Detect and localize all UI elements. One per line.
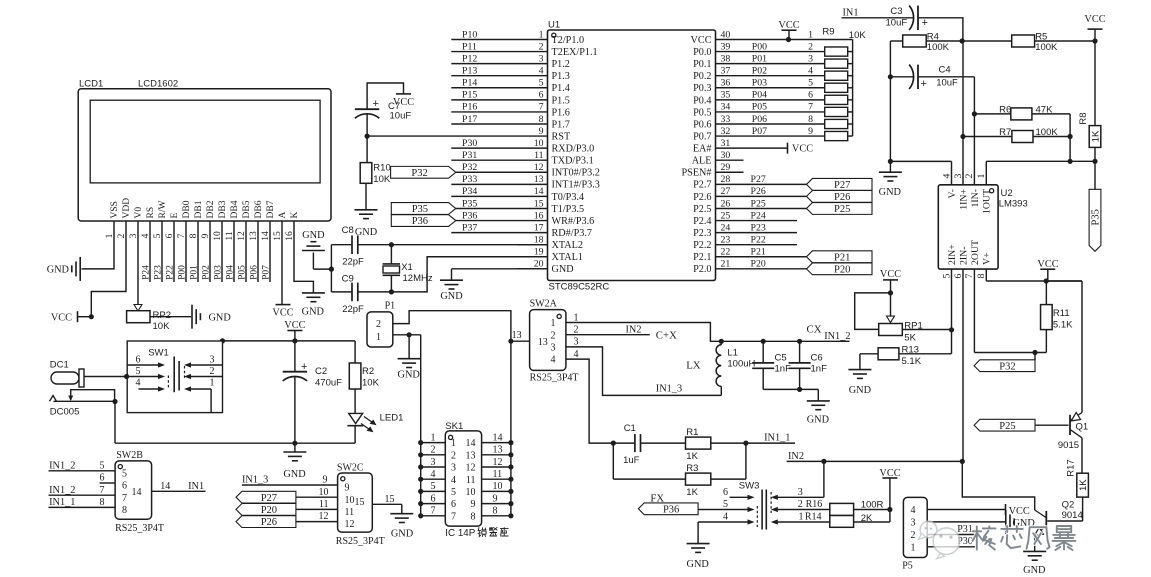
svg-text:4: 4 <box>431 469 436 480</box>
svg-text:IN1: IN1 <box>188 481 204 492</box>
svg-text:IN1_3: IN1_3 <box>656 384 682 395</box>
svg-text:L1: L1 <box>727 347 738 358</box>
capacitor C6 1nF <box>789 341 827 389</box>
switch SW3 <box>698 480 830 543</box>
transistor Q2 9014 NPN <box>962 461 1082 535</box>
svg-text:3: 3 <box>451 463 456 474</box>
svg-text:2: 2 <box>210 366 215 377</box>
svg-text:C+X: C+X <box>656 329 677 341</box>
wire U2 pin6 2IN- down to IN2 <box>962 269 964 461</box>
svg-text:3: 3 <box>798 487 803 498</box>
ground GND below C2 <box>283 443 306 480</box>
svg-text:IN1_2: IN1_2 <box>49 460 75 471</box>
power VCC above RP1 <box>880 269 901 295</box>
svg-text:15: 15 <box>385 494 395 505</box>
svg-text:9: 9 <box>471 499 476 510</box>
svg-text:16: 16 <box>534 210 544 221</box>
svg-text:1: 1 <box>539 29 544 40</box>
svg-text:DB2: DB2 <box>206 200 216 218</box>
svg-text:P35: P35 <box>462 198 477 209</box>
power VCC at P5 pin4 <box>1006 504 1030 517</box>
svg-text:IN2: IN2 <box>788 451 804 462</box>
svg-text:P06: P06 <box>249 265 259 280</box>
svg-text:XTAL1: XTAL1 <box>552 252 583 263</box>
svg-text:P10: P10 <box>462 29 477 40</box>
svg-text:SW1: SW1 <box>148 348 169 359</box>
port flag P20 to SW2C pin11 <box>236 499 338 516</box>
wires U1 P0.0-P0.7 to R9 with net labels P00-P07 <box>744 41 825 136</box>
svg-text:INT1#/P3.3: INT1#/P3.3 <box>552 180 600 191</box>
svg-text:2: 2 <box>964 173 975 178</box>
svg-text:P21: P21 <box>834 252 850 263</box>
wire LCD pin3 V0 to RP2 wiper <box>134 221 142 311</box>
wire P1 pin1 to ground and SK1 bus <box>393 332 421 358</box>
wire IN2 to SW3 pin3 <box>823 461 825 497</box>
resistor R7 100K <box>960 127 1072 142</box>
svg-text:28: 28 <box>721 174 731 185</box>
svg-text:100R: 100R <box>861 499 884 510</box>
svg-text:R16: R16 <box>806 499 823 510</box>
svg-text:10uF: 10uF <box>886 18 908 29</box>
svg-text:P5: P5 <box>902 561 913 572</box>
svg-text:P16: P16 <box>462 102 477 113</box>
svg-text:VCC: VCC <box>1009 506 1030 517</box>
svg-text:SW2C: SW2C <box>337 462 364 473</box>
svg-text:2: 2 <box>808 41 813 52</box>
svg-text:12: 12 <box>534 162 544 173</box>
svg-text:5: 5 <box>136 366 141 377</box>
port flag P27 at U1 pin28 <box>807 178 873 191</box>
svg-text:10: 10 <box>319 487 329 498</box>
svg-text:26: 26 <box>721 198 731 209</box>
label LX <box>686 360 701 372</box>
svg-text:14: 14 <box>160 481 170 492</box>
svg-text:P2.0: P2.0 <box>693 264 711 275</box>
svg-text:3: 3 <box>574 337 579 348</box>
svg-text:4: 4 <box>723 512 728 523</box>
svg-text:4: 4 <box>941 173 952 178</box>
capacitor C3 10uF <box>886 6 928 30</box>
svg-text:1: 1 <box>808 29 813 40</box>
svg-text:R1: R1 <box>686 427 698 438</box>
svg-text:7: 7 <box>100 485 105 496</box>
svg-text:P35: P35 <box>1090 209 1101 225</box>
svg-text:P2.2: P2.2 <box>693 240 711 251</box>
wire SW2A pin1 to L1 top node <box>566 323 721 342</box>
svg-text:Q1: Q1 <box>1076 422 1089 433</box>
label IC 14P socket <box>445 528 475 539</box>
wire SW2B pin14 net IN1 <box>152 481 206 492</box>
svg-text:P24: P24 <box>141 265 151 280</box>
wire XTAL2 line to U1 pin18 <box>331 244 547 246</box>
svg-text:6: 6 <box>953 273 964 278</box>
svg-text:5.1K: 5.1K <box>902 356 922 367</box>
svg-text:R8: R8 <box>1078 112 1089 124</box>
svg-text:C5: C5 <box>775 352 787 363</box>
port flag P26 at U1 pin27 <box>807 191 873 204</box>
svg-text:P32: P32 <box>462 162 477 173</box>
svg-text:7: 7 <box>431 506 436 517</box>
svg-text:2IN+: 2IN+ <box>947 244 958 265</box>
wire SW2A pin3 to net IN1_3 <box>566 347 721 396</box>
svg-text:1: 1 <box>376 332 381 343</box>
svg-text:1: 1 <box>911 542 916 553</box>
ground GND at LCD pin16 <box>302 293 325 318</box>
svg-text:E: E <box>170 213 180 219</box>
svg-text:P05: P05 <box>237 265 247 280</box>
switch SW2C RS25_3P4T <box>336 462 385 547</box>
svg-text:P01: P01 <box>189 265 199 280</box>
svg-text:2: 2 <box>798 499 803 510</box>
wire VCC to Q1 emitter <box>1046 281 1082 413</box>
svg-text:V0: V0 <box>134 207 144 219</box>
port flag P20 at U1 pin21 <box>807 263 873 276</box>
svg-text:2IN-: 2IN- <box>958 247 969 266</box>
wire SW2B pin6 stub <box>100 473 116 484</box>
svg-text:R2: R2 <box>362 366 374 377</box>
svg-text:P02: P02 <box>752 66 767 77</box>
svg-text:IN1_2: IN1_2 <box>824 331 850 342</box>
svg-text:VCC: VCC <box>792 144 813 155</box>
svg-text:+: + <box>921 78 927 90</box>
svg-text:C4: C4 <box>939 65 951 76</box>
wire XTAL1 line to U1 pin19 <box>331 257 547 292</box>
svg-text:P06: P06 <box>752 114 767 125</box>
svg-text:DC1: DC1 <box>50 360 69 371</box>
capacitor C5 1nF <box>752 341 791 389</box>
svg-text:12MHz: 12MHz <box>403 273 433 284</box>
svg-text:P37: P37 <box>462 222 477 233</box>
svg-text:21: 21 <box>721 259 731 270</box>
svg-text:P0.6: P0.6 <box>693 119 711 130</box>
wire SW2B pin7 net IN1_2 <box>49 485 116 496</box>
svg-text:8: 8 <box>471 511 476 522</box>
svg-text:9: 9 <box>323 475 328 486</box>
LCD data/control net label wires P24-P07 <box>141 221 271 282</box>
LCD1 pin numbers 1-16 <box>105 231 295 241</box>
U1 pin stubs and numbers <box>518 29 744 269</box>
svg-text:P27: P27 <box>834 180 850 191</box>
svg-text:6: 6 <box>431 493 436 504</box>
svg-text:1: 1 <box>210 378 215 389</box>
wire R4 left / C4 left column to ground <box>888 41 893 164</box>
svg-text:100uH: 100uH <box>727 358 755 369</box>
svg-text:SK1: SK1 <box>445 421 463 432</box>
svg-text:1uF: 1uF <box>623 455 640 466</box>
svg-text:13: 13 <box>534 174 544 185</box>
svg-text:8: 8 <box>493 506 498 517</box>
svg-text:P17: P17 <box>462 114 477 125</box>
wires U1 P3.x with net labels P30-P37 <box>451 138 517 233</box>
wire comparator 1OUT node <box>986 159 1097 164</box>
wire U1 VCC pin40 to R9 common <box>744 37 853 42</box>
svg-text:18: 18 <box>534 234 544 245</box>
LED LED1 <box>347 413 403 444</box>
svg-text:GND: GND <box>440 291 463 302</box>
svg-text:9: 9 <box>808 126 813 137</box>
resistor R5 100K <box>962 32 1098 53</box>
svg-text:6: 6 <box>808 90 813 101</box>
svg-text:4: 4 <box>911 505 916 516</box>
svg-text:V-: V- <box>947 189 958 198</box>
inductor L1 100uH <box>716 341 755 395</box>
resistor R6 47K <box>972 105 1070 120</box>
wire SW2A pin2 net IN2 <box>566 324 677 341</box>
svg-text:+: + <box>373 98 379 110</box>
svg-text:C2: C2 <box>315 366 327 377</box>
svg-text:34: 34 <box>721 102 731 113</box>
svg-text:10K: 10K <box>362 378 380 389</box>
svg-text:DB5: DB5 <box>242 200 252 218</box>
wire RP2 right to ground <box>150 316 191 318</box>
svg-text:P1.6: P1.6 <box>552 107 570 118</box>
wire U2 pin8 V+ to VCC <box>986 269 1082 284</box>
svg-text:RXD/P3.0: RXD/P3.0 <box>552 144 595 155</box>
svg-text:P0.3: P0.3 <box>693 83 711 94</box>
svg-text:12: 12 <box>493 457 503 468</box>
svg-text:P24: P24 <box>751 210 766 221</box>
svg-text:P26: P26 <box>751 186 766 197</box>
svg-text:T0/P3.4: T0/P3.4 <box>552 192 585 203</box>
svg-text:1IN+: 1IN+ <box>958 189 969 210</box>
svg-text:GND: GND <box>302 307 325 318</box>
capacitor C8 22pF <box>342 225 364 268</box>
svg-text:9: 9 <box>493 493 498 504</box>
svg-text:P13: P13 <box>462 66 477 77</box>
svg-text:8: 8 <box>122 505 127 516</box>
svg-text:DC005: DC005 <box>50 407 80 418</box>
ground GND at RP2 <box>192 305 231 329</box>
potentiometer RP2 10K <box>127 310 171 332</box>
svg-text:3: 3 <box>953 173 964 178</box>
svg-text:3: 3 <box>551 343 556 354</box>
svg-text:4: 4 <box>451 475 456 486</box>
switch SW2B RS25_3P4T <box>115 450 164 534</box>
svg-text:R3: R3 <box>686 463 698 474</box>
label Chinese socket text <box>478 528 508 537</box>
svg-text:10: 10 <box>466 487 476 498</box>
ground GND below R13 <box>848 370 871 396</box>
svg-text:P2.4: P2.4 <box>693 216 711 227</box>
svg-text:VSS: VSS <box>110 201 120 218</box>
svg-text:GND: GND <box>302 230 325 241</box>
wire DC1 to SW1 pin5 <box>84 376 127 378</box>
svg-text:P07: P07 <box>261 265 271 280</box>
svg-text:22pF: 22pF <box>342 304 364 315</box>
svg-text:RST: RST <box>552 131 571 142</box>
wire U2 pin5 2IN+ down <box>949 269 954 354</box>
svg-text:XTAL2: XTAL2 <box>552 240 583 251</box>
svg-text:VCC: VCC <box>778 20 799 31</box>
svg-text:P1.7: P1.7 <box>552 119 570 130</box>
svg-text:6: 6 <box>136 355 141 366</box>
svg-text:11: 11 <box>493 469 503 480</box>
svg-text:5: 5 <box>431 481 436 492</box>
wire P5 pin1 net P30 <box>927 536 975 547</box>
power VCC above R16/R14 <box>879 468 900 512</box>
svg-text:25: 25 <box>721 210 731 221</box>
svg-text:WR#/P3.6: WR#/P3.6 <box>552 216 595 227</box>
port flag P35 below R8 <box>1089 161 1101 251</box>
svg-text:1: 1 <box>451 438 456 449</box>
svg-text:P34: P34 <box>462 186 477 197</box>
svg-text:3: 3 <box>539 53 544 64</box>
svg-text:DB3: DB3 <box>218 200 228 218</box>
svg-text:37: 37 <box>721 66 731 77</box>
svg-text:P36: P36 <box>663 504 679 515</box>
svg-text:P26: P26 <box>834 192 850 203</box>
svg-text:GND: GND <box>807 415 830 426</box>
svg-text:2: 2 <box>376 319 381 330</box>
svg-text:IC 14P: IC 14P <box>445 528 475 539</box>
svg-text:P1.4: P1.4 <box>552 83 570 94</box>
svg-text:2OUT: 2OUT <box>970 240 981 265</box>
svg-text:1K: 1K <box>1090 130 1101 142</box>
svg-text:P1: P1 <box>385 300 396 311</box>
svg-text:P03: P03 <box>213 265 223 280</box>
resistor network R9 10K <box>808 27 866 141</box>
svg-text:GND: GND <box>552 264 574 275</box>
IC U2 LM393 comparator <box>938 185 1027 269</box>
svg-text:R/W: R/W <box>158 201 168 219</box>
svg-text:P27: P27 <box>261 493 277 504</box>
svg-text:P0.1: P0.1 <box>693 59 711 70</box>
svg-text:4: 4 <box>574 349 579 360</box>
svg-text:C8: C8 <box>342 225 354 236</box>
svg-text:10K: 10K <box>373 174 391 185</box>
svg-text:VCC: VCC <box>691 35 712 46</box>
wire net IN1_1 <box>746 433 795 444</box>
svg-text:P31: P31 <box>462 150 477 161</box>
svg-text:P35: P35 <box>412 204 428 215</box>
svg-text:GND: GND <box>849 385 872 396</box>
resistor R3 1K <box>613 443 746 498</box>
svg-text:12: 12 <box>345 519 355 530</box>
svg-text:35: 35 <box>721 90 731 101</box>
svg-text:C6: C6 <box>811 352 823 363</box>
wire U2 pin1 1OUT up <box>985 161 987 185</box>
svg-text:P23: P23 <box>751 222 766 233</box>
svg-text:RS25_3P4T: RS25_3P4T <box>336 536 385 547</box>
svg-text:R10: R10 <box>373 163 390 174</box>
svg-text:12: 12 <box>319 511 329 522</box>
svg-text:IN1_1: IN1_1 <box>764 433 790 444</box>
wire U2 pin4 V- to ground <box>890 161 951 184</box>
svg-text:1: 1 <box>551 318 556 329</box>
U2 pin numbers <box>941 173 987 278</box>
wire SW2C pin15 to ground <box>372 494 402 513</box>
svg-text:14: 14 <box>132 487 142 498</box>
ground GND at P1 pin1 <box>398 359 421 381</box>
ground GND below Q2 emitter <box>1023 535 1046 576</box>
svg-text:P2.6: P2.6 <box>693 192 711 203</box>
svg-text:5: 5 <box>122 468 127 479</box>
svg-text:1K: 1K <box>686 451 698 462</box>
svg-text:GND: GND <box>47 265 70 276</box>
wire DC005 sleeve with switch contact <box>54 390 118 404</box>
svg-text:U2: U2 <box>1001 188 1013 199</box>
svg-text:1nF: 1nF <box>811 364 828 375</box>
svg-text:VCC: VCC <box>880 269 901 280</box>
svg-text:13: 13 <box>538 337 548 348</box>
svg-text:P23: P23 <box>153 265 163 280</box>
resistor R10 10K <box>360 136 391 209</box>
svg-text:11: 11 <box>534 150 544 161</box>
svg-text:P26: P26 <box>261 517 277 528</box>
crystal X1 12MHz <box>383 242 433 294</box>
svg-text:11: 11 <box>466 475 476 486</box>
svg-text:P00: P00 <box>752 41 767 52</box>
svg-text:P20: P20 <box>261 505 277 516</box>
wire net IN1 to C3 <box>842 7 914 18</box>
svg-text:STC89C52RC: STC89C52RC <box>549 282 610 293</box>
watermark logo bubbles <box>919 521 960 559</box>
wire P5 pin4 to VCC <box>927 509 1005 511</box>
svg-text:1: 1 <box>799 512 804 523</box>
capacitor C1 1uF <box>611 423 686 466</box>
svg-text:10: 10 <box>345 495 355 506</box>
svg-text:5: 5 <box>808 78 813 89</box>
ground GND at SW2C pin15 <box>390 514 413 540</box>
capacitor C9 22pF <box>342 274 364 316</box>
wire P1 pin2 to SW2A pin13 <box>393 311 514 344</box>
svg-text:P27: P27 <box>751 174 766 185</box>
wires U1 P1.0-P1.7 with net labels P10-P17 <box>451 29 517 124</box>
svg-text:IN1: IN1 <box>843 7 859 18</box>
svg-text:7: 7 <box>539 102 544 113</box>
svg-text:P22: P22 <box>165 265 175 280</box>
svg-text:6: 6 <box>122 481 127 492</box>
svg-text:LM393: LM393 <box>999 199 1028 210</box>
connector DC005 ground pin <box>50 396 80 418</box>
svg-text:9: 9 <box>345 483 350 494</box>
svg-text:5: 5 <box>941 273 952 278</box>
svg-text:8: 8 <box>976 273 987 278</box>
power VCC at U2 V+ <box>1037 259 1058 281</box>
wire C3 to R4/R5 node <box>918 18 963 41</box>
svg-text:9015: 9015 <box>1058 440 1079 451</box>
svg-text:GND: GND <box>879 187 902 198</box>
resistor R11 5.1K <box>1041 281 1074 353</box>
port flag P25 to Q1 base <box>974 419 1068 432</box>
wire U1 EA# to VCC <box>744 147 788 149</box>
wire R6/R7 junction column <box>1068 114 1073 164</box>
wire LCD pin16 K to ground <box>294 221 313 293</box>
svg-text:DB4: DB4 <box>230 200 240 218</box>
svg-text:P02: P02 <box>201 265 211 280</box>
switch SW2A RS25_3P4T <box>511 299 579 384</box>
svg-text:8: 8 <box>808 114 813 125</box>
resistor R8 1K <box>1078 41 1101 161</box>
svg-text:VCC: VCC <box>272 308 293 319</box>
svg-text:RS: RS <box>146 207 156 219</box>
capacitor C2 470uF <box>283 341 342 443</box>
svg-text:GND: GND <box>283 469 306 480</box>
svg-text:RD#/P3.7: RD#/P3.7 <box>552 228 592 239</box>
svg-text:IN1_3: IN1_3 <box>242 475 268 486</box>
svg-text:IN1_2: IN1_2 <box>49 485 75 496</box>
svg-text:DB1: DB1 <box>194 200 204 218</box>
svg-text:19: 19 <box>534 247 544 258</box>
svg-text:22: 22 <box>721 247 731 258</box>
wire P5 pin3 to ground <box>927 521 1005 523</box>
svg-text:VDD: VDD <box>122 198 132 219</box>
svg-text:P30: P30 <box>462 138 477 149</box>
capacitor C7 10uF at RST <box>355 83 411 136</box>
svg-text:10uF: 10uF <box>936 78 958 89</box>
svg-text:P1.3: P1.3 <box>552 71 570 82</box>
svg-text:P01: P01 <box>752 53 767 64</box>
